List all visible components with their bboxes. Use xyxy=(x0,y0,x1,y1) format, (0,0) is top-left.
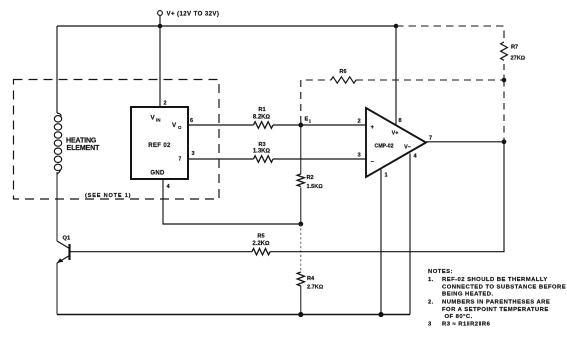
resistor R5 xyxy=(252,249,270,255)
svg-text:R1: R1 xyxy=(258,107,265,113)
wire bottom rail xyxy=(57,314,410,316)
svg-text:1: 1 xyxy=(385,173,388,179)
svg-text:R7: R7 xyxy=(511,45,518,51)
wire output down and left to R5 xyxy=(270,142,504,252)
wire Q1 emitter to bottom rail xyxy=(56,263,58,315)
dashed thermal boundary box (see note 1) xyxy=(14,80,220,200)
svg-text:HEATING: HEATING xyxy=(66,138,97,145)
svg-text:R2: R2 xyxy=(307,175,314,181)
svg-text:−: − xyxy=(371,160,375,166)
wire R5 to Q1 base xyxy=(71,251,253,253)
svg-text:Q1: Q1 xyxy=(63,236,72,242)
svg-text:GND: GND xyxy=(150,171,165,177)
IC REF-02 box U1 xyxy=(131,107,188,179)
svg-text:NUMBERS IN PARENTHESES ARE: NUMBERS IN PARENTHESES ARE xyxy=(442,300,550,306)
resistor R4 xyxy=(297,272,304,286)
node R6 R7 junction xyxy=(502,78,507,83)
wire V+ rail down to heating element xyxy=(56,26,58,113)
svg-text:7: 7 xyxy=(179,157,182,163)
svg-text:27KΩ: 27KΩ xyxy=(511,56,526,62)
svg-text:V+: V+ xyxy=(392,131,399,137)
svg-text:1.: 1. xyxy=(428,277,434,283)
node V+ rail to op-amp supply xyxy=(394,24,399,29)
svg-text:OF 80°C.: OF 80°C. xyxy=(445,314,473,320)
svg-text:3: 3 xyxy=(192,151,195,157)
svg-text:2.: 2. xyxy=(428,300,434,306)
wire R2 to gnd node xyxy=(300,188,302,225)
svg-text:ELEMENT: ELEMENT xyxy=(67,145,101,152)
resistor R1 xyxy=(254,122,274,129)
wire R1 to E1 xyxy=(273,124,366,126)
pin 4 gnd wire of REF-02 xyxy=(163,179,301,224)
wire dashed rail to R7 xyxy=(396,26,504,42)
wire R3 to op-amp xyxy=(273,158,366,160)
wire dashed E1 up to R6 xyxy=(301,80,331,123)
pin 1 wire to bottom rail xyxy=(380,170,382,315)
svg-text:FOR A SETPOINT TEMPERATURE: FOR A SETPOINT TEMPERATURE xyxy=(442,307,549,313)
svg-text:1.3KΩ: 1.3KΩ xyxy=(253,149,271,155)
svg-text:BEING HEATED.: BEING HEATED. xyxy=(442,292,494,298)
node output junction xyxy=(502,139,507,144)
wire dashed node to output xyxy=(503,80,505,140)
pin 2 wire Vin xyxy=(159,26,161,107)
pin 4 wire op-amp to bottom rail xyxy=(409,154,411,315)
pin 8 supply wire xyxy=(395,26,397,125)
resistor R6 xyxy=(331,77,356,83)
label (SEE NOTE 1) xyxy=(83,190,133,199)
svg-text:V−: V− xyxy=(404,145,411,151)
wire divider node to R4 xyxy=(300,224,302,272)
svg-text:IN: IN xyxy=(156,118,160,123)
svg-text:6: 6 xyxy=(190,118,193,124)
svg-text:V+ (12V TO 32V): V+ (12V TO 32V) xyxy=(167,11,220,18)
transistor Q1 xyxy=(57,241,70,263)
wire top V+ rail xyxy=(57,25,396,27)
pin 7 output wire xyxy=(426,141,504,143)
svg-text:2.2KΩ: 2.2KΩ xyxy=(252,241,270,247)
op-amp U2 CMP-02 triangle xyxy=(366,108,426,177)
svg-text:R3 ≈ R1‖R2‖R6: R3 ≈ R1‖R2‖R6 xyxy=(442,322,491,328)
svg-text:R3: R3 xyxy=(258,142,265,148)
svg-text:1.5KΩ: 1.5KΩ xyxy=(307,184,324,190)
wire E1 down to R2 xyxy=(300,125,302,174)
svg-text:+: + xyxy=(371,125,375,131)
terminal V+ input circle xyxy=(158,11,163,26)
node E1 xyxy=(298,123,303,128)
pin 6 wire to R1 xyxy=(188,124,254,126)
node R4 bottom rail xyxy=(298,312,303,317)
label VIN xyxy=(151,115,161,123)
svg-text:8: 8 xyxy=(399,118,402,124)
svg-text:REF-02 SHOULD BE THERMALLY: REF-02 SHOULD BE THERMALLY xyxy=(442,277,548,283)
svg-text:NOTES:: NOTES: xyxy=(428,269,453,275)
svg-text:REF 02: REF 02 xyxy=(148,143,171,149)
node pin1 bottom rail xyxy=(378,312,383,317)
svg-text:2: 2 xyxy=(358,119,361,125)
label E1 xyxy=(305,117,312,124)
svg-text:CONNECTED TO SUBSTANCE BEFORE: CONNECTED TO SUBSTANCE BEFORE xyxy=(442,284,566,290)
notes text block xyxy=(428,269,566,328)
svg-text:2.7KΩ: 2.7KΩ xyxy=(307,285,324,291)
svg-text:7: 7 xyxy=(429,136,432,142)
svg-text:O: O xyxy=(178,125,182,130)
wire dashed R6 to node xyxy=(356,79,504,81)
node V+ terminal junction xyxy=(158,24,163,29)
resistor R2 xyxy=(297,174,304,187)
svg-text:CMP-02: CMP-02 xyxy=(374,144,393,150)
wire R4 to bottom rail xyxy=(300,286,302,315)
svg-text:R4: R4 xyxy=(307,276,315,282)
svg-text:3: 3 xyxy=(428,322,432,328)
heating element coil L1 xyxy=(54,113,61,174)
resistor R7 xyxy=(501,42,508,60)
svg-text:8.2KΩ: 8.2KΩ xyxy=(253,114,271,120)
svg-text:R6: R6 xyxy=(339,69,346,75)
label VO xyxy=(172,122,182,130)
svg-text:2: 2 xyxy=(164,101,167,107)
resistor R3 xyxy=(254,156,274,163)
svg-text:(SEE NOTE 1): (SEE NOTE 1) xyxy=(85,193,131,199)
wire heating element to Q1 collector xyxy=(56,172,58,241)
svg-text:R5: R5 xyxy=(257,234,264,240)
pin 3 wire to R3 xyxy=(188,158,254,160)
node gnd divider junction xyxy=(298,222,303,227)
wire dashed R7 to node xyxy=(503,64,505,80)
